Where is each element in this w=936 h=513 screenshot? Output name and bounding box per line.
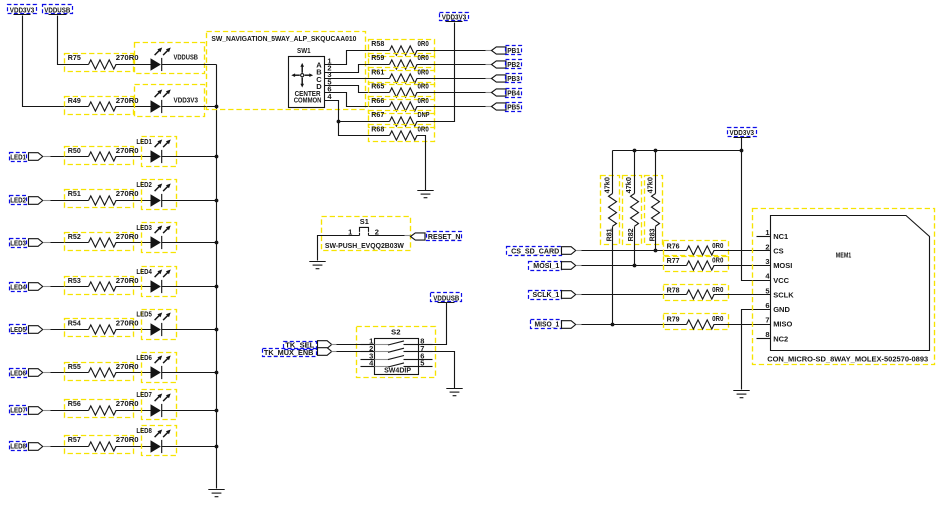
- port RESET_N: [411, 233, 426, 240]
- svg-text:MOSI: MOSI: [773, 261, 792, 270]
- wire: [116, 242, 151, 244]
- junction bus/LED8: [215, 445, 219, 449]
- wire R68 to ground: [417, 136, 426, 191]
- svg-text:SCLK_1: SCLK_1: [533, 290, 560, 299]
- svg-text:LED3: LED3: [10, 239, 26, 248]
- port PB2: [492, 61, 507, 68]
- svg-text:PB4: PB4: [507, 89, 520, 98]
- svg-text:R66: R66: [371, 96, 384, 105]
- svg-text:R67: R67: [371, 110, 384, 119]
- junction bus/LED2: [215, 199, 219, 203]
- svg-text:0R0: 0R0: [712, 314, 723, 323]
- wire: [116, 200, 151, 202]
- svg-text:MISO_1: MISO_1: [535, 319, 560, 328]
- resistor R57 270R0: [65, 436, 134, 454]
- svg-text:LED4: LED4: [136, 267, 152, 276]
- svg-text:VDDUSB: VDDUSB: [44, 5, 70, 14]
- svg-text:CON_MICRO-SD_8WAY_MOLEX-502570: CON_MICRO-SD_8WAY_MOLEX-502570-0893: [767, 355, 928, 364]
- svg-text:SW1: SW1: [297, 46, 311, 55]
- svg-text:CS_SD_CARD: CS_SD_CARD: [511, 246, 560, 255]
- svg-text:PB5: PB5: [507, 103, 520, 112]
- svg-text:LED3: LED3: [136, 223, 152, 232]
- resistor R50 270R0: [65, 147, 134, 165]
- wire SW1 pin1 to R58: [325, 51, 390, 65]
- wire: [634, 151, 636, 194]
- svg-text:R52: R52: [68, 232, 81, 241]
- LED LED6: [142, 353, 177, 383]
- resistor R67 DNP: [369, 111, 435, 128]
- wire: [714, 294, 771, 296]
- wire to LED bus: [162, 64, 217, 66]
- wire S1 left to ground: [318, 236, 360, 261]
- wire: [44, 372, 51, 374]
- ground (LED bus): [208, 490, 224, 497]
- resistor R65 0R0: [369, 83, 435, 100]
- svg-text:R49: R49: [68, 96, 81, 105]
- wire: [116, 106, 151, 108]
- resistor R82 47k0: [623, 176, 642, 245]
- wire: [69, 106, 89, 108]
- power VDDUSB (S2): [431, 293, 462, 302]
- wire: [116, 372, 151, 374]
- LED LED3: [142, 223, 177, 253]
- svg-text:0R0: 0R0: [712, 256, 723, 265]
- LED LED2: [142, 180, 177, 210]
- wire: [612, 151, 614, 194]
- wire: [714, 265, 771, 267]
- junction bus/VDD3V3: [215, 105, 219, 109]
- switch S2 SW4DIP: [357, 327, 436, 378]
- svg-text:LED8: LED8: [136, 426, 152, 435]
- svg-text:MOSI_1: MOSI_1: [533, 261, 559, 270]
- resistor R53 270R0: [65, 277, 134, 295]
- svg-text:R77: R77: [667, 256, 680, 265]
- svg-text:6: 6: [765, 301, 769, 310]
- svg-text:LED6: LED6: [136, 353, 152, 362]
- switch S1 SW-PUSH: [322, 217, 411, 251]
- junction rail/R82: [633, 149, 637, 153]
- port LED8: [10, 442, 27, 451]
- svg-text:VCC: VCC: [773, 276, 789, 285]
- svg-text:PB2: PB2: [507, 60, 520, 69]
- svg-text:R75: R75: [68, 53, 81, 62]
- resistor R79 0R0: [664, 314, 729, 330]
- svg-text:0R0: 0R0: [418, 82, 429, 91]
- svg-text:270R0: 270R0: [116, 399, 139, 408]
- port PB4: [492, 89, 507, 96]
- svg-text:0R0: 0R0: [712, 241, 723, 250]
- port PB5: [492, 103, 507, 110]
- wire TK_MUX_ENB to S2 pin2: [332, 351, 337, 353]
- svg-text:SW_NAVIGATION_5WAY_ALP_SKQUCAA: SW_NAVIGATION_5WAY_ALP_SKQUCAA010: [211, 34, 356, 43]
- wire: [44, 410, 51, 412]
- svg-text:R57: R57: [68, 435, 81, 444]
- LED VDDUSB: [135, 43, 205, 74]
- svg-text:S2: S2: [391, 327, 401, 336]
- svg-text:TK_MUX_ENB: TK_MUX_ENB: [264, 348, 314, 357]
- wire: [714, 250, 771, 252]
- port LED3: [10, 239, 27, 248]
- svg-text:VDDUSB: VDDUSB: [433, 293, 459, 302]
- svg-text:270R0: 270R0: [116, 362, 139, 371]
- wire: [417, 92, 486, 94]
- svg-text:7: 7: [765, 316, 769, 325]
- svg-text:0R0: 0R0: [418, 124, 429, 133]
- port TK_MUX_ENB: [263, 349, 317, 357]
- resistor R58 0R0: [369, 40, 435, 57]
- resistor R78 0R0: [664, 285, 729, 301]
- wire to LED bus: [162, 242, 217, 244]
- svg-text:R82: R82: [626, 228, 635, 241]
- port SCLK_1: [529, 291, 562, 300]
- svg-text:NC2: NC2: [773, 334, 788, 343]
- wire: [577, 250, 582, 252]
- svg-text:COMMON: COMMON: [294, 96, 322, 105]
- wire SW1 pin2 to R59: [325, 65, 390, 73]
- pin 7 S2: [419, 351, 433, 353]
- junction rail/R83: [654, 149, 658, 153]
- resistor R68 0R0: [369, 125, 435, 142]
- svg-text:R78: R78: [667, 285, 680, 294]
- resistor R77 0R0: [664, 256, 729, 272]
- wire: [69, 64, 89, 66]
- junction bus/LED7: [215, 409, 219, 413]
- svg-text:270R0: 270R0: [116, 53, 139, 62]
- wire S2 pin7 to ground: [433, 352, 455, 389]
- svg-text:DNP: DNP: [418, 110, 430, 119]
- svg-text:LED5: LED5: [10, 325, 26, 334]
- wire SW1 pin5 to R65: [325, 86, 390, 93]
- svg-text:LED5: LED5: [136, 309, 152, 318]
- ground (S1): [309, 262, 325, 269]
- port TK_SEL: [284, 342, 317, 350]
- wire: [417, 64, 486, 66]
- svg-text:5: 5: [420, 359, 424, 368]
- svg-text:R56: R56: [68, 399, 81, 408]
- wire: [116, 446, 151, 448]
- svg-text:R58: R58: [371, 39, 384, 48]
- port PB1: [492, 47, 507, 54]
- junction bus/LED6: [215, 371, 219, 375]
- port LED5: [10, 325, 27, 334]
- junction bus/LED4: [215, 285, 219, 289]
- svg-text:0R0: 0R0: [418, 96, 429, 105]
- junction R82: [633, 264, 637, 268]
- LED LED4: [142, 267, 177, 297]
- svg-text:R79: R79: [667, 315, 680, 324]
- wire: [417, 78, 486, 80]
- pin 8 S2: [419, 344, 433, 346]
- wire to LED bus: [162, 446, 217, 448]
- port PB3: [492, 75, 507, 82]
- wire: [116, 329, 151, 331]
- svg-text:R54: R54: [68, 319, 82, 328]
- port MISO_1: [531, 320, 562, 329]
- svg-text:R50: R50: [68, 146, 81, 155]
- resistor R61 0R0: [369, 68, 435, 85]
- wire pullup rail: [613, 150, 742, 152]
- wire: [577, 294, 582, 296]
- resistor R83 47k0: [645, 176, 663, 245]
- svg-text:3: 3: [765, 257, 769, 266]
- port LED1: [10, 153, 27, 162]
- wire to LED bus: [162, 106, 217, 108]
- svg-text:SCLK: SCLK: [773, 291, 794, 300]
- svg-text:47k0: 47k0: [603, 177, 612, 193]
- wire: [44, 446, 51, 448]
- wire: [577, 265, 582, 267]
- svg-text:0R0: 0R0: [418, 53, 429, 62]
- svg-text:270R0: 270R0: [116, 189, 139, 198]
- wire to LED bus: [162, 156, 217, 158]
- svg-text:LED7: LED7: [10, 406, 26, 415]
- svg-text:RESET_N: RESET_N: [428, 232, 461, 241]
- wire GND pin6 to ground: [742, 310, 771, 390]
- svg-text:270R0: 270R0: [116, 96, 139, 105]
- connector MEM1 micro SD: [753, 209, 935, 365]
- junction COMMON/R67: [337, 120, 341, 124]
- svg-text:VDD3V3: VDD3V3: [442, 13, 467, 22]
- wire: [44, 329, 51, 331]
- svg-text:8: 8: [765, 330, 769, 339]
- wire R67 to VDD3V3: [417, 23, 455, 122]
- svg-text:CS: CS: [773, 247, 783, 256]
- svg-text:PB1: PB1: [507, 46, 520, 55]
- svg-text:R61: R61: [371, 67, 384, 76]
- ground (SD): [733, 391, 749, 398]
- svg-text:PB3: PB3: [507, 74, 520, 83]
- port CS_SD_CARD: [507, 247, 562, 256]
- LED LED5: [142, 310, 177, 340]
- pin 6 S2: [419, 359, 433, 361]
- port LED6: [10, 369, 27, 378]
- LED LED7: [142, 390, 177, 420]
- junction R83: [654, 249, 658, 253]
- wire: [116, 64, 151, 66]
- wire VDDUSB to R75: [58, 16, 69, 65]
- svg-text:LED1: LED1: [136, 137, 152, 146]
- svg-text:LED6: LED6: [10, 369, 26, 378]
- wire: [655, 151, 657, 194]
- svg-text:2: 2: [765, 242, 769, 251]
- joystick cross icon: [291, 63, 313, 88]
- svg-text:270R0: 270R0: [116, 276, 139, 285]
- port LED7: [10, 406, 27, 415]
- pin 1 S2: [361, 344, 375, 346]
- svg-text:MEM1: MEM1: [836, 251, 852, 260]
- wire: [44, 156, 51, 158]
- wire to LED bus: [162, 200, 217, 202]
- pin 3 S2: [361, 359, 375, 361]
- resistor R52 270R0: [65, 233, 134, 251]
- svg-text:4: 4: [327, 92, 332, 101]
- wire: [417, 106, 486, 108]
- svg-text:R55: R55: [68, 362, 81, 371]
- svg-text:GND: GND: [773, 305, 790, 314]
- resistor R55 270R0: [65, 363, 134, 381]
- wire: [116, 156, 151, 158]
- svg-text:SW-PUSH_EVQQ2B03W: SW-PUSH_EVQQ2B03W: [325, 241, 405, 250]
- resistor R56 270R0: [65, 400, 134, 418]
- svg-text:1: 1: [765, 228, 769, 237]
- svg-text:VDD3V3: VDD3V3: [10, 5, 35, 14]
- pin 1 MEM1 NC1: [757, 236, 771, 238]
- wire VDDUSB to S2 pin8: [419, 303, 447, 345]
- svg-text:47k0: 47k0: [646, 177, 655, 193]
- port MOSI_1: [529, 262, 562, 271]
- svg-text:R51: R51: [68, 189, 81, 198]
- wire TK_SEL to S2 pin1: [332, 344, 337, 346]
- wire SW1 pin4 COMMON to R67/R68: [325, 101, 390, 136]
- pin 8 MEM1 NC2: [757, 338, 771, 340]
- wire: [44, 200, 51, 202]
- junction bus/LED5: [215, 328, 219, 332]
- svg-text:LED2: LED2: [10, 196, 26, 205]
- svg-text:R76: R76: [667, 241, 680, 250]
- svg-text:R65: R65: [371, 82, 384, 91]
- wire: [116, 286, 151, 288]
- svg-text:47k0: 47k0: [624, 177, 633, 193]
- power VDD3V3 (nav pullup): [440, 13, 469, 21]
- LED LED1: [142, 137, 177, 167]
- svg-text:270R0: 270R0: [116, 435, 139, 444]
- svg-text:LED1: LED1: [10, 153, 26, 162]
- wire: [634, 227, 636, 266]
- wire: [714, 324, 771, 326]
- DIP lever 4: [375, 366, 389, 368]
- svg-text:LED4: LED4: [10, 283, 26, 292]
- port LED2: [10, 196, 27, 205]
- power VDD3V3 (SD pullups): [728, 128, 757, 137]
- junction R81: [611, 323, 615, 327]
- wire to LED bus: [162, 329, 217, 331]
- wire S1 pin2 to RESET_N: [369, 235, 405, 237]
- wire to LED bus: [162, 286, 217, 288]
- wire: [577, 324, 582, 326]
- junction bus/LED3: [215, 241, 219, 245]
- pin 2 S2: [361, 351, 375, 353]
- svg-text:VDD3V3: VDD3V3: [730, 128, 755, 137]
- resistor R51 270R0: [65, 190, 134, 208]
- svg-text:270R0: 270R0: [116, 232, 139, 241]
- svg-text:VDDUSB: VDDUSB: [174, 53, 199, 62]
- resistor R59 0R0: [369, 54, 435, 71]
- wire SW1 pin6 to R66: [325, 93, 390, 107]
- svg-text:NC1: NC1: [773, 232, 788, 241]
- wire VDD3V3 to R49: [23, 16, 69, 107]
- power VDDUSB (top-left): [43, 5, 73, 14]
- wire to LED bus: [162, 372, 217, 374]
- svg-text:R59: R59: [371, 53, 384, 62]
- pin 4 S2: [361, 366, 375, 368]
- svg-text:0R0: 0R0: [712, 285, 723, 294]
- DIP lever 1: [375, 344, 389, 346]
- wire: [44, 242, 51, 244]
- svg-text:270R0: 270R0: [116, 319, 139, 328]
- svg-text:LED7: LED7: [136, 390, 152, 399]
- wire SW1 pin3 to R61: [325, 78, 390, 80]
- LED LED8: [142, 426, 177, 456]
- svg-text:S1: S1: [360, 217, 369, 226]
- resistor R81 47k0: [601, 176, 620, 245]
- svg-text:270R0: 270R0: [116, 146, 139, 155]
- resistor R49 270R0: [65, 97, 134, 115]
- ground (R68): [417, 191, 433, 198]
- svg-text:0R0: 0R0: [418, 39, 429, 48]
- pushbutton symbol S1: [360, 227, 369, 235]
- DIP lever 3: [375, 359, 389, 361]
- svg-text:4: 4: [765, 272, 770, 281]
- component SW1 block outline: [207, 32, 366, 110]
- resistor R66 0R0: [369, 97, 435, 114]
- wire VDD3V3 to VCC pin4: [742, 138, 771, 281]
- resistor R76 0R0: [664, 241, 729, 257]
- wire LED cathode bus: [216, 65, 218, 489]
- svg-text:MISO: MISO: [773, 320, 792, 329]
- svg-text:0R0: 0R0: [418, 67, 429, 76]
- wire: [44, 286, 51, 288]
- svg-text:R68: R68: [371, 124, 384, 133]
- junction rail/VDD3V3: [740, 149, 744, 153]
- svg-text:VDD3V3: VDD3V3: [174, 96, 199, 105]
- svg-text:LED2: LED2: [136, 180, 152, 189]
- wire: [655, 227, 657, 251]
- wire: [612, 227, 614, 325]
- wire junction to R67: [339, 121, 390, 123]
- resistor R54 270R0: [65, 319, 134, 337]
- power VDD3V3 (top-left): [8, 5, 37, 14]
- ground (S2): [446, 389, 462, 396]
- svg-text:R53: R53: [68, 276, 81, 285]
- svg-text:LED8: LED8: [10, 442, 26, 451]
- wire to LED bus: [162, 410, 217, 412]
- svg-text:1: 1: [348, 227, 352, 236]
- resistor R75 270R0: [65, 54, 134, 72]
- wire: [417, 50, 486, 52]
- wire: [116, 410, 151, 412]
- DIP lever 2: [375, 351, 389, 353]
- pin 5 S2: [419, 366, 433, 368]
- port LED4: [10, 283, 27, 292]
- LED VDD3V3: [135, 85, 205, 117]
- svg-text:5: 5: [765, 286, 769, 295]
- junction bus/LED1: [215, 155, 219, 159]
